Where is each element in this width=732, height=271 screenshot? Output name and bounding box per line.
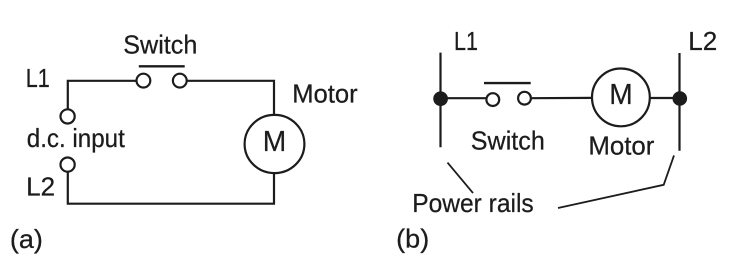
svg-text:M: M	[263, 126, 287, 158]
leader line from L1 rail to Power rails label	[448, 163, 474, 194]
power rail L1 (b)	[439, 53, 441, 148]
switch bar (b)	[484, 82, 531, 84]
svg-text:Motor: Motor	[292, 78, 358, 108]
svg-text:(a): (a)	[10, 224, 43, 254]
switch S1 contact circle left (a)	[137, 74, 151, 88]
wire motor to node L2 (b)	[650, 97, 680, 99]
switch S1 contact circle right (a)	[173, 74, 187, 88]
terminal circle L1 input (a)	[61, 109, 75, 123]
svg-text:L1: L1	[26, 63, 50, 93]
circuit (b)	[441, 53, 680, 208]
svg-text:d.c. input: d.c. input	[27, 123, 126, 153]
wire switch to motor top (a)	[187, 81, 274, 116]
svg-text:M: M	[609, 79, 633, 111]
circuit (a)	[61, 66, 305, 203]
wire node to switch (b)	[441, 97, 486, 99]
wire L1 corner: down from top-left corner to L1 terminal, right to switch (a)	[68, 81, 136, 110]
wire motor bottom to bottom rail to left (a)	[68, 172, 274, 204]
svg-text:Switch: Switch	[123, 30, 197, 60]
wire switch to motor (b)	[531, 97, 593, 99]
svg-text:L2: L2	[26, 172, 55, 202]
switch S1 bar (a)	[139, 65, 185, 67]
svg-text:Switch: Switch	[471, 126, 545, 156]
svg-text:(b): (b)	[396, 224, 429, 254]
power rail L2 (b)	[678, 53, 680, 151]
svg-text:L1: L1	[454, 26, 478, 56]
terminal circle L2 input (a)	[61, 158, 75, 172]
svg-text:Power rails: Power rails	[412, 188, 534, 218]
switch contact circle left (b)	[486, 93, 499, 106]
svg-text:Motor: Motor	[588, 131, 654, 161]
svg-text:L2: L2	[688, 26, 717, 56]
junction node dot on rail L2 (b)	[673, 91, 688, 106]
motor M1 circle (a)	[245, 115, 305, 173]
leader line from Power rails label to L2 rail	[558, 155, 674, 208]
junction node dot on rail L1 (b)	[433, 91, 448, 106]
switch contact circle right (b)	[518, 92, 531, 105]
motor M2 circle (b)	[592, 69, 650, 127]
